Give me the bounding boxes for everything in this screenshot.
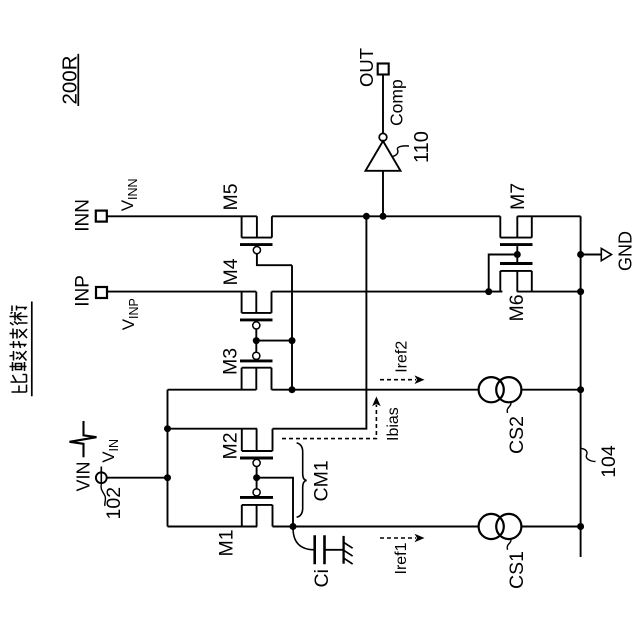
- label Comp: [387, 79, 407, 126]
- underline 比較技術: [31, 302, 33, 397]
- node right rail / INP rail: [577, 288, 584, 295]
- svg-text:INN: INN: [73, 199, 94, 232]
- svg-text:Iref1: Iref1: [393, 542, 410, 574]
- squiggle CS2: [507, 402, 511, 414]
- label M4: [220, 258, 242, 285]
- dashed arrow Iref1: [380, 534, 425, 543]
- node gate bias tie: [289, 337, 296, 344]
- svg-text:M5: M5: [220, 183, 242, 210]
- label OUT: [356, 48, 377, 87]
- terminal OUT square: [378, 64, 389, 75]
- squiggle CS1: [507, 538, 511, 550]
- label GND: [616, 231, 636, 271]
- label VIN: [74, 461, 94, 491]
- node M5 drain / M2 rail: [363, 213, 370, 220]
- label INN: [73, 199, 94, 232]
- svg-text:GND: GND: [616, 231, 636, 271]
- transistor M3: [240, 341, 273, 390]
- squiggle 102: [101, 484, 105, 506]
- label M2: [220, 432, 242, 459]
- ground (earth) symbol: [344, 536, 353, 564]
- node M6 gate wire to INP rail: [485, 288, 492, 295]
- dashed arrow Ibias: [282, 397, 381, 439]
- label V_IN: [99, 439, 121, 463]
- inverter U110: [366, 75, 401, 217]
- label CS2: [506, 416, 528, 454]
- label M7: [507, 183, 529, 210]
- dashed arrow Iref2: [380, 375, 425, 384]
- node M1/M2 gates: [253, 474, 260, 481]
- svg-text:M7: M7: [507, 183, 529, 210]
- label V_INP: [119, 298, 141, 330]
- svg-text:Ci: Ci: [311, 569, 333, 587]
- terminal VIN circle 102: [96, 472, 107, 483]
- brace CM1: [297, 443, 307, 517]
- svg-text:OUT: OUT: [356, 48, 377, 87]
- kanji 技: [10, 329, 28, 349]
- wire M6/M7 gate node: [489, 255, 518, 292]
- wire M2 drain rail: [168, 216, 367, 428]
- svg-text:M2: M2: [220, 432, 242, 459]
- capacitor Ci: [293, 529, 344, 565]
- label 110: [411, 131, 433, 163]
- wire VIN input: [107, 477, 168, 479]
- kanji 較: [10, 351, 27, 371]
- wire INN rail: [107, 215, 581, 217]
- node M6/M7 gates: [514, 251, 521, 258]
- label CS1: [506, 551, 528, 589]
- node M2 rail / left vertical: [164, 425, 171, 432]
- svg-text:M1: M1: [216, 529, 238, 556]
- kanji 術: [10, 306, 28, 326]
- squiggle 110: [393, 146, 410, 157]
- transistor M7: [500, 216, 533, 254]
- label M5: [220, 183, 242, 210]
- label INP: [73, 275, 94, 307]
- label Ci: [311, 569, 333, 587]
- svg-text:CM1: CM1: [311, 460, 333, 501]
- label 104: [598, 445, 620, 478]
- node right rail / CS1: [577, 523, 584, 530]
- node GND tee: [577, 251, 584, 258]
- label M3: [220, 348, 242, 375]
- svg-text:CS1: CS1: [506, 551, 528, 589]
- label 比較技術 (hand-drawn kanji strokes): [10, 306, 28, 393]
- waveform pulse icon: [70, 421, 97, 457]
- wire CS1 rail: [168, 526, 581, 528]
- wire bias rail (Iref2 node): [168, 389, 581, 391]
- label M1: [216, 529, 238, 556]
- current source CS2: [479, 377, 522, 402]
- svg-text:110: 110: [411, 131, 433, 163]
- svg-text:VIN: VIN: [74, 461, 94, 491]
- transistor M1: [240, 478, 273, 527]
- label M6: [506, 294, 528, 321]
- node Ci junction: [290, 523, 297, 530]
- wire gate bias vertical: [256, 265, 292, 390]
- svg-text:Ibias: Ibias: [385, 407, 402, 441]
- svg-text:INP: INP: [73, 275, 94, 307]
- wire INP rail: [107, 291, 580, 293]
- label Ibias: [385, 407, 402, 441]
- svg-text:M6: M6: [506, 294, 528, 321]
- transistor M4: [240, 292, 273, 341]
- current source CS1: [479, 514, 522, 539]
- node M3/M4 gates: [253, 337, 260, 344]
- node VIN junction: [164, 474, 171, 481]
- svg-text:102: 102: [103, 487, 125, 520]
- node right rail / CS2: [577, 386, 584, 393]
- label 200R: [59, 55, 82, 104]
- terminal INN square: [96, 211, 107, 222]
- svg-text:Comp: Comp: [387, 79, 407, 126]
- wire left vertical: [167, 390, 169, 527]
- squiggle 104: [582, 449, 596, 462]
- svg-text:M4: M4: [220, 258, 242, 285]
- node inverter input: [380, 213, 387, 220]
- transistor M2: [240, 429, 273, 478]
- kanji 比: [11, 375, 27, 393]
- transistor M5: [240, 216, 292, 265]
- underline 200R: [77, 54, 79, 106]
- svg-text:CS2: CS2: [506, 416, 528, 454]
- svg-text:Iref2: Iref2: [394, 341, 411, 373]
- label Iref2: [394, 341, 411, 373]
- transistor M6: [500, 255, 533, 292]
- wire stub through VIN terminal: [100, 467, 102, 484]
- node gate bias to rail: [289, 386, 296, 393]
- label 102: [103, 487, 125, 520]
- wire right vertical rail: [580, 216, 582, 557]
- wire M2/M1 gate node: [257, 478, 293, 527]
- label Iref1: [393, 542, 410, 574]
- label V_INN: [118, 178, 140, 211]
- GND symbol: [581, 248, 612, 260]
- label CM1: [311, 460, 333, 501]
- svg-text:104: 104: [598, 445, 620, 478]
- svg-text:M3: M3: [220, 348, 242, 375]
- terminal INP square: [96, 287, 107, 298]
